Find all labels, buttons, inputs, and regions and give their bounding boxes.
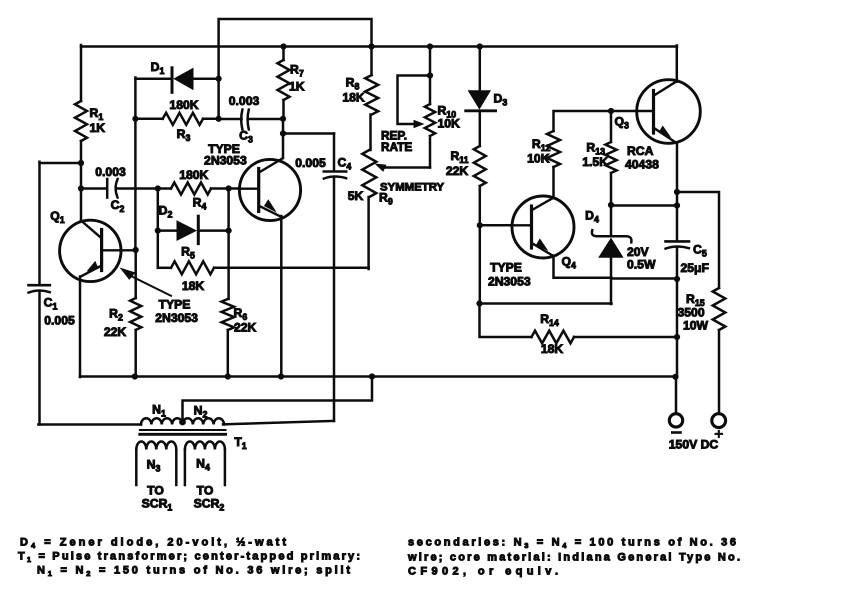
node Q2 emitter at ground bus — [278, 373, 284, 379]
transformer T1 primary N1-N2 — [141, 418, 224, 424]
zener diode D4 — [585, 206, 656, 305]
node R10 rheostat tap — [427, 72, 433, 78]
label Q1 type — [155, 298, 198, 326]
terminal negative — [669, 414, 682, 433]
svg-text:2N3053: 2N3053 — [204, 154, 247, 168]
transistor Q2 — [239, 159, 300, 221]
rheostat loop R10 — [398, 76, 431, 129]
label REP RATE — [381, 129, 412, 155]
wire center tap riser — [183, 377, 373, 423]
node Q2 collector / C4 branch junction — [280, 130, 286, 136]
capacitor C1 — [29, 285, 75, 327]
node R3/C3 junction — [216, 116, 222, 122]
resistor R5 — [158, 245, 369, 294]
wire R13 bottom leg — [610, 173, 613, 206]
wire Q4 base lead — [480, 224, 513, 227]
wire R1 top leg — [80, 45, 83, 101]
resistor R3 — [135, 98, 218, 143]
svg-text:150V DC: 150V DC — [669, 438, 719, 452]
svg-text:TO: TO — [147, 484, 164, 498]
wire R13 top leg — [610, 111, 613, 142]
resistor R11 — [446, 146, 486, 186]
transistor Q4 — [512, 196, 574, 258]
wire C1 top leg — [38, 162, 41, 285]
node Q3 base junction — [608, 108, 614, 114]
svg-text:18K: 18K — [541, 342, 564, 356]
svg-text:0.003: 0.003 — [95, 165, 126, 179]
svg-text:10W: 10W — [683, 319, 709, 333]
node R3 left junction — [132, 116, 138, 122]
wire R7-to-C4 junction — [282, 119, 285, 158]
transistor Q1 — [50, 209, 134, 282]
wire zener branch horizontal — [611, 204, 677, 207]
svg-text:TYPE: TYPE — [490, 261, 522, 275]
wire C4 branch horizontal — [283, 132, 334, 135]
svg-text:25μF: 25μF — [681, 261, 709, 275]
label 150V DC — [669, 438, 719, 452]
wire D1-R3 junction to Q1 base — [134, 119, 137, 251]
label TO SCR1 — [142, 484, 173, 513]
diode D1 — [135, 60, 218, 92]
label TO SCR2 — [194, 484, 225, 513]
node D2 left junction — [155, 228, 161, 234]
node R8 top at bus — [368, 43, 374, 49]
label Q3 — [615, 115, 629, 131]
svg-text:0.5W: 0.5W — [627, 258, 656, 272]
node T1 center tap — [179, 419, 186, 426]
wire D1 left leg — [134, 78, 137, 121]
transformer secondary N3 — [136, 442, 176, 486]
svg-text:0.005: 0.005 — [295, 156, 326, 170]
caption right column — [407, 537, 740, 578]
capacitor C4 — [295, 134, 351, 422]
resistor R10 — [425, 104, 460, 168]
diode D2 — [158, 204, 229, 244]
svg-text:22K: 22K — [234, 321, 257, 335]
wire R8-R9 link — [369, 115, 372, 151]
label Q2 type — [204, 142, 247, 168]
wire D3 to R11 — [479, 111, 482, 146]
label T1 — [234, 435, 246, 451]
node R10 top at bus — [427, 43, 433, 49]
wire Q4 base junction down — [479, 225, 482, 304]
terminal positive — [712, 414, 726, 437]
resistor R12 — [527, 131, 560, 167]
wire Q1 collector lead — [80, 189, 83, 222]
svg-text:2N3053: 2N3053 — [488, 275, 531, 289]
svg-text:3500: 3500 — [678, 306, 705, 320]
resistor R6 — [222, 299, 257, 377]
node R15 branch junction — [674, 189, 680, 195]
resistor R2 — [104, 298, 141, 339]
resistor R1 — [75, 101, 105, 141]
capacitor C2 — [95, 165, 126, 214]
svg-text:22K: 22K — [446, 164, 469, 178]
wiper arrow of R9 — [375, 164, 431, 172]
resistor R13 — [582, 141, 616, 174]
svg-text:2N3053: 2N3053 — [155, 311, 198, 325]
node R6 at ground bus — [225, 373, 231, 379]
wire Q2 emitter leg — [280, 216, 283, 377]
node Q4 base junction — [477, 222, 483, 228]
node C5 bottom junction — [674, 276, 680, 282]
node Q1 base junction — [133, 247, 139, 253]
svg-text:0.003: 0.003 — [229, 94, 260, 108]
label Q4 type — [488, 261, 531, 289]
wire C1 bottom leg — [38, 292, 41, 425]
wire R2 top leg — [134, 250, 137, 298]
wire C2 line left — [81, 187, 107, 190]
svg-text:RATE: RATE — [381, 140, 412, 154]
wire R9 bottom leg — [367, 197, 370, 269]
wire Q2 base lead — [229, 187, 240, 190]
node R14 right junction — [674, 334, 680, 340]
svg-text:10K: 10K — [527, 152, 550, 166]
potentiometer R9 — [348, 150, 445, 207]
wire Q3 emitter leg — [676, 142, 679, 241]
svg-text:180K: 180K — [179, 168, 208, 182]
wire Q3 collector leg — [676, 46, 679, 82]
node C5 top junction — [674, 202, 680, 208]
diode D3 — [466, 90, 508, 111]
label N1 — [152, 403, 166, 419]
wire R1 bottom to C2 junction — [80, 141, 83, 189]
wire Q4 collector leg — [552, 167, 555, 198]
transformer core — [140, 430, 226, 434]
resistor R14 — [480, 304, 678, 357]
wire Q1 emitter leg — [79, 277, 82, 378]
node R1 bottom / C1 branch — [78, 160, 84, 166]
wire D2 left leg — [157, 189, 160, 232]
label Q3 type — [625, 144, 659, 172]
wire D4 anode to R14 junction — [480, 302, 612, 305]
svg-text:1K: 1K — [289, 80, 305, 94]
label N2 — [194, 404, 208, 420]
wire R2 bottom leg — [134, 330, 137, 377]
wire R11 to Q4 base junction — [479, 186, 482, 226]
node ground bus right end — [672, 374, 678, 380]
wire C4 leg to transformer — [223, 421, 334, 424]
wire R15 bottom leg — [718, 330, 721, 414]
svg-text:1K: 1K — [90, 121, 106, 135]
svg-text:1.5K: 1.5K — [582, 155, 608, 169]
svg-text:10K: 10K — [438, 117, 461, 131]
wire Q4 emitter leg — [553, 256, 612, 278]
resistor R8 — [342, 47, 378, 115]
svg-text:40438: 40438 — [625, 158, 659, 172]
caption left column — [18, 537, 360, 579]
svg-text:secondaries: N3 = N4 = 100 tur: secondaries: N3 = N4 = 100 turns of No. … — [408, 537, 736, 551]
wire C2 line right — [117, 187, 158, 190]
capacitor C3 — [219, 94, 283, 145]
wire ground bus — [80, 375, 677, 378]
label Q4 — [562, 255, 576, 271]
wire negative terminal leg — [675, 377, 678, 414]
wire C5 bottom leg — [676, 249, 679, 377]
svg-text:22K: 22K — [104, 325, 127, 339]
wire D3 top leg — [479, 47, 482, 91]
transistor Q3 — [611, 80, 700, 144]
node D2 cathode junction — [226, 228, 232, 234]
svg-text:0.005: 0.005 — [44, 314, 75, 328]
svg-text:5K: 5K — [348, 189, 364, 203]
wire R12 top link — [554, 111, 612, 131]
node D3 top at bus — [477, 43, 483, 49]
node center-tap riser at ground bus — [369, 373, 375, 379]
wire top feedback box — [219, 19, 372, 117]
wire R4/D2 junction down to R6 — [227, 189, 230, 300]
node R13/D4 junction — [608, 202, 614, 208]
node R2 at ground bus — [132, 373, 138, 379]
wire bottom left to transformer — [38, 423, 141, 426]
node Q2 base junction — [226, 185, 232, 191]
node R7 top at bus — [280, 43, 286, 49]
label N4 — [196, 457, 210, 473]
wire R15 top link — [677, 192, 719, 288]
svg-text:SYMMETRY: SYMMETRY — [380, 182, 445, 194]
wire C1 branch horizontal — [40, 162, 82, 165]
node R14 left junction — [476, 300, 482, 306]
resistor R15 — [678, 288, 726, 333]
svg-text:180K: 180K — [169, 98, 198, 112]
svg-text:TYPE: TYPE — [159, 298, 191, 312]
resistor R7 — [278, 47, 305, 120]
capacitor C5 — [666, 241, 709, 275]
node C2 left junction — [78, 185, 84, 191]
label N3 — [147, 458, 161, 474]
resistor R4 — [158, 168, 229, 212]
node C3/R7 junction — [280, 116, 286, 122]
svg-text:TO: TO — [197, 484, 214, 498]
node D2/R4 left junction — [155, 185, 161, 191]
svg-text:18K: 18K — [342, 91, 365, 105]
wire top supply bus — [81, 45, 677, 48]
annotation arrow to Q1 — [120, 268, 172, 296]
wire R10 top leg — [429, 47, 432, 105]
wire R5 left leg — [157, 231, 160, 268]
node D1 cathode junction — [216, 76, 222, 82]
transformer secondary N4 — [185, 442, 225, 486]
svg-text:RCA: RCA — [627, 144, 654, 158]
wire Q4 emitter to C5 bottom — [612, 277, 678, 280]
svg-text:18K: 18K — [182, 279, 205, 293]
